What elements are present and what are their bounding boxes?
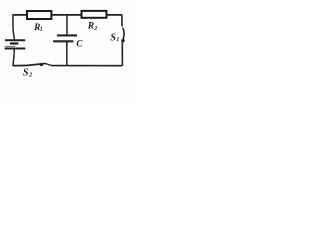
- resistor R1: [27, 11, 51, 19]
- svg-text:1: 1: [116, 37, 119, 43]
- svg-text:1: 1: [40, 27, 43, 33]
- label R2: [87, 21, 98, 32]
- label S2: [23, 67, 32, 78]
- wire right: [121, 15, 124, 66]
- wire bottom: [13, 65, 123, 67]
- wire middle branch: [66, 15, 68, 65]
- svg-text:2: 2: [28, 72, 32, 78]
- wire top: [13, 14, 122, 16]
- svg-text:C: C: [76, 39, 83, 49]
- label S1: [110, 32, 119, 43]
- resistor R2: [82, 11, 107, 18]
- battery: [5, 40, 26, 48]
- wire left: [13, 14, 15, 65]
- switch S2: [26, 63, 51, 66]
- capacitor C: [53, 35, 77, 41]
- switch S1: [121, 28, 124, 43]
- label R1: [33, 23, 43, 33]
- svg-text:2: 2: [93, 26, 97, 32]
- label C: [76, 39, 83, 49]
- svg-text:S: S: [23, 67, 29, 78]
